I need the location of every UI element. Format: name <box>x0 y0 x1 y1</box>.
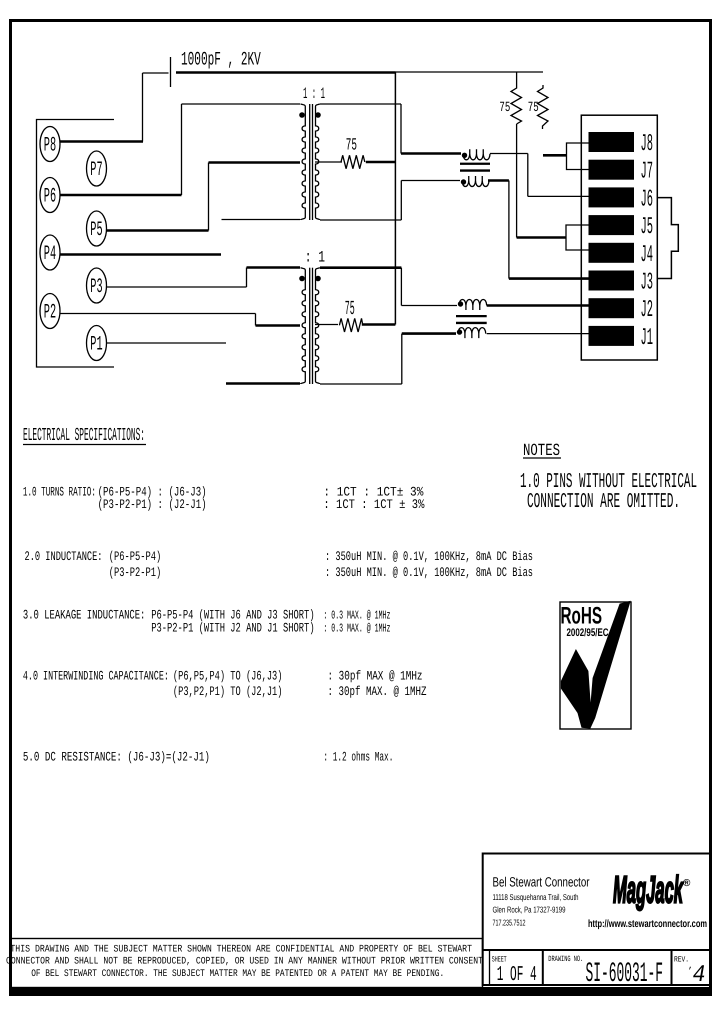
svg-text:P5: P5 <box>90 219 102 242</box>
svg-text:3.0 LEAKAGE INDUCTANCE:: 3.0 LEAKAGE INDUCTANCE: <box>23 608 145 623</box>
svg-text:1.0 TURNS RATIO:: 1.0 TURNS RATIO: <box>23 484 96 499</box>
connector pin J1 <box>589 325 654 352</box>
svg-text:: 30pf MAX @ 1MHz: : 30pf MAX @ 1MHz <box>328 669 423 684</box>
svg-text:MagJack: MagJack <box>613 870 684 912</box>
svg-text:(P6-P5-P4): (P6-P5-P4) <box>109 549 162 564</box>
connector pin J2 <box>589 297 654 324</box>
svg-text:: 350uH MIN. @ 0.1V, 100KHz, 8: : 350uH MIN. @ 0.1V, 100KHz, 8mA DC Bias <box>325 549 533 564</box>
wire P1 stub <box>106 342 226 344</box>
connector J body (RJ45) <box>581 115 678 360</box>
pin P3 <box>87 268 107 303</box>
wire: choke L2 bottom to J1 <box>487 333 589 335</box>
svg-text:J4: J4 <box>641 242 654 269</box>
svg-text:RoHS: RoHS <box>561 603 603 630</box>
resistor R1 75 (T1 secondary center) <box>315 155 396 168</box>
svg-text:75: 75 <box>499 100 510 116</box>
svg-text:: 350uH MIN. @ 0.1V, 100KHz, 8: : 350uH MIN. @ 0.1V, 100KHz, 8mA DC Bias <box>325 565 533 580</box>
spec 3.0 leakage inductance <box>23 608 391 636</box>
svg-text:CONNECTION ARE OMITTED.: CONNECTION ARE OMITTED. <box>527 491 680 514</box>
pin P1 <box>87 326 107 361</box>
RoHS logo <box>560 601 631 729</box>
pin P8 <box>40 127 60 162</box>
pin P2 <box>40 294 60 329</box>
svg-text:4.0 INTERWINDING CAPACITANCE:: 4.0 INTERWINDING CAPACITANCE: <box>23 669 169 684</box>
transformer T1 <box>301 104 320 220</box>
svg-text:: 1: : 1 <box>305 249 325 267</box>
connector pin J5 <box>589 214 654 241</box>
svg-text:P6: P6 <box>44 185 56 208</box>
resistor R3 75 (vertical, to J5/J4) <box>511 72 566 238</box>
svg-text:: 30pf MAX. @ 1MHZ: : 30pf MAX. @ 1MHZ <box>328 684 427 699</box>
svg-text:P2: P2 <box>44 301 56 324</box>
svg-text:P1: P1 <box>90 333 102 356</box>
svg-text:11118 Susquehanna Trail, South: 11118 Susquehanna Trail, South <box>493 892 579 902</box>
svg-text:CONNECTOR AND SHALL NOT BE REP: CONNECTOR AND SHALL NOT BE REPRODUCED, C… <box>6 957 483 968</box>
svg-text:: 1.2 ohms Max.: : 1.2 ohms Max. <box>323 750 393 765</box>
wire: top termination bus (thick) <box>176 71 396 74</box>
svg-text:J1: J1 <box>641 325 654 352</box>
wire: stub to J8/J7 bracket <box>543 154 567 157</box>
svg-text:1 OF 4: 1 OF 4 <box>497 964 537 987</box>
svg-text:J3: J3 <box>641 270 654 297</box>
svg-text:P3-P2-P1 (WITH J2 AND J1 SHORT: P3-P2-P1 (WITH J2 AND J1 SHORT) <box>151 621 314 636</box>
wire T1 primary bottom stub <box>222 219 301 221</box>
svg-text:Bel Stewart Connector: Bel Stewart Connector <box>493 875 590 890</box>
wire: T1 secondary bottom to choke L1 <box>320 181 460 221</box>
ELECTRICAL SPECIFICATIONS heading <box>23 426 146 446</box>
choke L2 (common-mode) <box>456 300 487 339</box>
svg-text:75: 75 <box>528 100 539 116</box>
title block: sheet cell <box>490 950 537 987</box>
spec 2.0 inductance <box>25 549 534 580</box>
spec 1.0 turns ratio <box>23 484 425 512</box>
P-pin group box <box>37 120 115 368</box>
svg-text:4: 4 <box>693 962 706 989</box>
wire T2 primary bottom <box>226 382 300 385</box>
svg-text:75: 75 <box>346 137 357 156</box>
wire P2 to T2 primary center tap <box>60 314 300 326</box>
wire: top termination bus (thin part to resistors) <box>396 71 544 73</box>
title block: drawing no cell <box>548 955 663 990</box>
svg-text:1000pF , 2KV: 1000pF , 2KV <box>181 48 261 70</box>
svg-text:http://www.stewartconnector.co: http://www.stewartconnector.com <box>588 918 707 930</box>
wire P4 stub <box>60 253 221 256</box>
spec 5.0 dc resistance <box>23 750 394 765</box>
svg-text:: 0.3 MAX. @ 1MHz: : 0.3 MAX. @ 1MHz <box>323 622 390 636</box>
transformer T2 phase dots <box>299 276 321 282</box>
wire P8 to capacitor riser <box>60 73 143 142</box>
node: termination bus vertical <box>394 73 396 325</box>
svg-text:J8: J8 <box>641 131 654 158</box>
svg-text:5.0 DC RESISTANCE: (J6-J3)=(J2: 5.0 DC RESISTANCE: (J6-J3)=(J2-J1) <box>23 750 210 765</box>
wire: choke L1 bottom to J3 <box>488 181 589 279</box>
svg-text:: 1CT : 1CT ± 3%: : 1CT : 1CT ± 3% <box>323 497 424 512</box>
svg-text:ELECTRICAL SPECIFICATIONS:: ELECTRICAL SPECIFICATIONS: <box>23 426 145 446</box>
note 1.0 pins omitted <box>520 471 697 514</box>
svg-text:75: 75 <box>345 298 355 321</box>
svg-text:2.0 INDUCTANCE:: 2.0 INDUCTANCE: <box>25 549 103 564</box>
title block: rev cell <box>674 956 706 990</box>
svg-text:(P6,P5,P4) TO (J6,J3): (P6,P5,P4) TO (J6,J3) <box>173 669 283 684</box>
capacitor C1 1000pF 2KV <box>143 57 171 87</box>
confidentiality box <box>6 939 483 988</box>
svg-text:P4: P4 <box>44 243 56 266</box>
svg-text:Glen Rock, Pa 17327-9199: Glen Rock, Pa 17327-9199 <box>493 905 566 915</box>
pin P6 <box>40 178 60 213</box>
svg-text:SI-60031-F: SI-60031-F <box>586 959 664 990</box>
svg-text:P3: P3 <box>90 276 102 299</box>
svg-text:OF BEL STEWART CONNECTOR. THE: OF BEL STEWART CONNECTOR. THE SUBJECT MA… <box>31 969 444 980</box>
svg-text:(P3,P2,P1) TO (J2,J1): (P3,P2,P1) TO (J2,J1) <box>173 684 283 699</box>
transformer T1 phase dots <box>299 112 321 118</box>
node: J5/J4 bracket <box>566 225 589 250</box>
svg-text:1 : 1: 1 : 1 <box>303 85 325 103</box>
wire: choke L2 top to J2 <box>487 304 589 307</box>
pin P7 <box>87 151 107 186</box>
wire P5 to T1 primary center tap <box>106 163 300 231</box>
wire P3 to T2 primary top <box>106 268 300 288</box>
svg-text:DRAWING NO.: DRAWING NO. <box>548 955 583 964</box>
node: J8/J7 bracket <box>567 143 589 170</box>
connector pin J8 <box>589 131 654 158</box>
svg-text:: 0.3 MAX. @ 1MHz: : 0.3 MAX. @ 1MHz <box>323 609 390 623</box>
wire: T2 secondary top to choke L2 <box>320 268 457 306</box>
wire: T1 secondary top to choke L1 <box>320 104 461 154</box>
choke L1 (common-mode) <box>460 149 490 186</box>
svg-text:J5: J5 <box>641 214 654 241</box>
NOTES heading <box>523 442 561 461</box>
svg-text:(P3-P2-P1) : (J2-J1): (P3-P2-P1) : (J2-J1) <box>98 497 207 512</box>
svg-text:(P3-P2-P1): (P3-P2-P1) <box>109 565 162 580</box>
connector pin J7 <box>589 159 654 186</box>
wire: T2 secondary bottom to choke L2 <box>320 334 456 384</box>
svg-text:P7: P7 <box>90 159 102 182</box>
svg-text:THIS DRAWING AND THE SUBJECT M: THIS DRAWING AND THE SUBJECT MATTER SHOW… <box>10 945 472 956</box>
connector pin J6 <box>589 186 654 213</box>
svg-text:J7: J7 <box>641 159 654 186</box>
resistor R2 75 (T2 secondary center) <box>315 318 395 332</box>
svg-text:J2: J2 <box>641 297 654 324</box>
title block <box>483 854 711 986</box>
connector pin J3 <box>589 270 654 297</box>
svg-text:P8: P8 <box>44 134 56 157</box>
resistor R4 75 (vertical, floating to J8/J7) <box>538 85 549 129</box>
svg-text:2002/95/EC: 2002/95/EC <box>567 627 609 639</box>
svg-text:REV.: REV. <box>674 956 689 965</box>
svg-text:717.235.7512: 717.235.7512 <box>493 918 526 928</box>
wire: choke L1 top to J6 <box>490 154 589 197</box>
transformer T2 <box>301 268 320 384</box>
svg-text:®: ® <box>683 878 691 889</box>
pin P4 <box>40 235 60 270</box>
spec 4.0 interwinding capacitance <box>23 669 427 700</box>
wire P6 to T1 primary top <box>60 104 300 195</box>
svg-text:J6: J6 <box>641 186 654 213</box>
connector pin J4 <box>589 242 654 269</box>
pin P5 <box>87 211 107 246</box>
